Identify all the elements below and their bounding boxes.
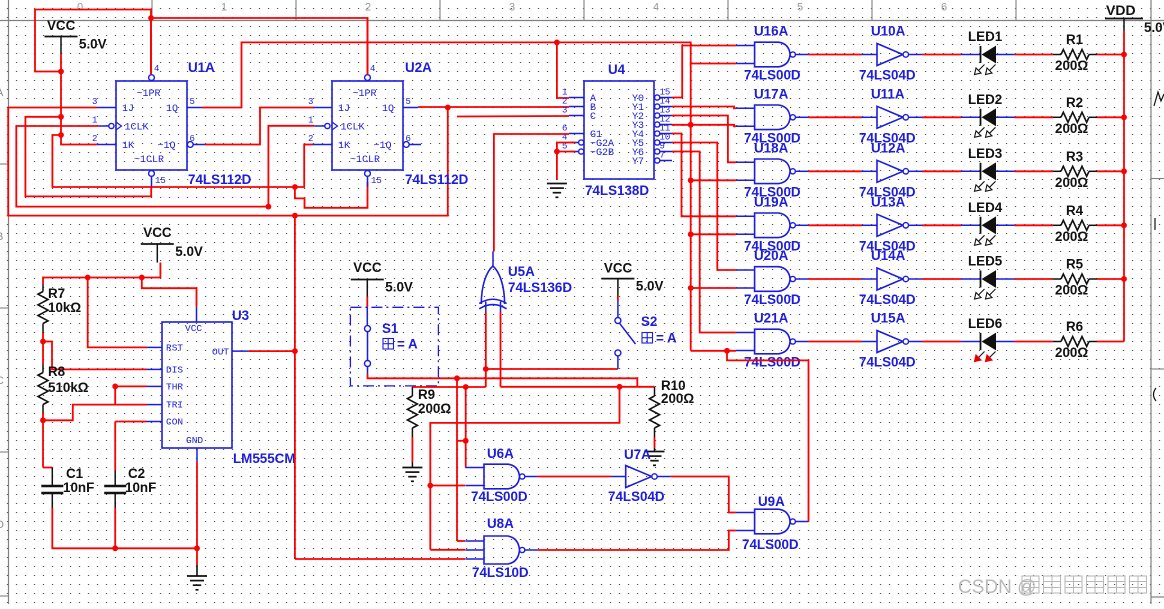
wire C input from below (457, 115, 569, 118)
wire to U6A bottom input (430, 485, 465, 487)
wire U6A output to U7A (538, 476, 611, 478)
sheet left border line (8, 0, 10, 604)
svg-text:U6A: U6A (487, 446, 514, 461)
svg-text:~1PR: ~1PR (353, 89, 377, 100)
svg-text:5: 5 (797, 2, 803, 14)
svg-text:15: 15 (155, 176, 166, 186)
svg-text:VCC: VCC (353, 260, 382, 275)
svg-text:U19A: U19A (754, 194, 789, 209)
svg-text:~1CLR: ~1CLR (350, 155, 380, 166)
svg-text:1CLK: 1CLK (341, 123, 365, 134)
svg-text:RST: RST (166, 343, 183, 354)
wire U13A output to LED4 (922, 224, 961, 226)
LED LED2 (961, 116, 981, 118)
wire LED4 to R4 (1015, 224, 1054, 226)
wire U6A top input branch (465, 387, 467, 468)
svg-text:1Q: 1Q (166, 104, 178, 115)
resistor R1 200&#937; (1053, 54, 1061, 56)
wire U9A output feedback to U21A (807, 521, 809, 523)
wire Y6 to U21A top input (672, 152, 736, 333)
NAND gate U17A 74LS00D (755, 105, 791, 130)
svg-text:U9A: U9A (758, 494, 785, 509)
capacitor C1 10nF (42, 420, 44, 467)
wire U15A output to LED6 (922, 341, 961, 343)
svg-text:1K: 1K (338, 141, 350, 152)
svg-text:6: 6 (190, 134, 195, 144)
svg-text:R2: R2 (1066, 95, 1083, 110)
wire riser to U2A clock (268, 126, 314, 207)
wire Y0 to U16A top input (672, 46, 736, 98)
svg-text:R3: R3 (1066, 149, 1083, 164)
wire U5A left input (485, 312, 487, 387)
svg-text:LED4: LED4 (968, 200, 1003, 215)
svg-text:~1PR: ~1PR (137, 89, 161, 100)
wire U17A output to U11A (808, 116, 862, 118)
svg-text:0: 0 (77, 2, 83, 14)
wire U1A clock net (16, 126, 268, 207)
wire drop to bottom distribution (430, 387, 619, 550)
svg-text:4: 4 (653, 2, 659, 14)
switch S1 key=A (dashed enclosure) (350, 307, 438, 386)
S1 top pin wire (366, 297, 368, 307)
svg-text:R1: R1 (1066, 32, 1084, 47)
junction dot C2 bus (112, 545, 118, 551)
svg-text:C1: C1 (66, 466, 84, 481)
XOR gate U5A 74LS136D (481, 266, 504, 304)
svg-text:74LS136D: 74LS136D (508, 280, 572, 295)
label S1 key = A (383, 339, 394, 350)
wire to U20A bottom input (691, 287, 736, 289)
wire U3 GND to ground (196, 462, 198, 548)
svg-text:Y7: Y7 (632, 157, 644, 168)
svg-text:200Ω: 200Ω (1055, 175, 1088, 190)
svg-text:74LS112D: 74LS112D (405, 172, 469, 187)
resistor R9 200&#937; (411, 387, 413, 396)
ground under U4 (547, 184, 567, 198)
junction dot A to pin A (554, 40, 560, 46)
wire R6 to VDD rail (1097, 341, 1124, 343)
svg-text:2: 2 (92, 134, 97, 144)
junction dot Y3 column (688, 122, 694, 128)
wire to U3 DIS (43, 342, 147, 370)
inverter U12A 74LS04D (877, 160, 903, 182)
wire U21A output to U15A (808, 341, 862, 343)
wire LED1 to R1 (1015, 54, 1054, 56)
svg-text:LM555CM: LM555CM (233, 451, 296, 466)
junction dot RST branch (85, 275, 91, 281)
svg-text:1Q: 1Q (382, 104, 394, 115)
svg-text:74LS00D: 74LS00D (742, 537, 799, 552)
wire R9 to ground (411, 437, 413, 462)
wire to U3 TRI (115, 404, 146, 406)
svg-text:VCC: VCC (185, 323, 202, 334)
resistor R2 200&#937; (1053, 116, 1061, 118)
flip-flop U1A 74LS112D (116, 81, 187, 170)
svg-text:VCC: VCC (143, 225, 172, 240)
svg-text:5.0V: 5.0V (79, 37, 107, 52)
svg-text:74LS138D: 74LS138D (585, 183, 649, 198)
svg-text:7: 7 (660, 151, 665, 161)
wire S2 line (486, 368, 618, 370)
wire R5 to VDD rail (1097, 278, 1124, 280)
wire S1 bottom to net (368, 374, 638, 387)
svg-text:10kΩ: 10kΩ (48, 300, 81, 315)
wire C2 to ground bus (114, 508, 116, 548)
svg-text:200Ω: 200Ω (418, 401, 451, 416)
wire VCC2 distribution line (43, 263, 160, 285)
wire Y2 to U18A top input (672, 116, 736, 163)
svg-text:74LS112D: 74LS112D (188, 172, 252, 187)
wire U1A preset from rail (150, 18, 152, 74)
3-input NAND gate U8A 74LS10D (484, 536, 520, 564)
U4 ~G2A pin (579, 140, 584, 145)
wire R9 to U5A left input net (412, 386, 485, 388)
svg-text:B: B (0, 231, 3, 243)
junction dot U6A bottom branch (427, 483, 433, 489)
svg-text:1J: 1J (122, 104, 134, 115)
svg-text:U1A: U1A (188, 60, 215, 75)
svg-text:~1Q: ~1Q (158, 141, 176, 152)
junction dot U6A/US8 cross link (463, 438, 469, 444)
junction dot U20A branch (688, 285, 694, 291)
decoder U4 74LS138D (584, 81, 654, 179)
svg-text:1: 1 (92, 116, 97, 126)
wire VCC1 to top rail (35, 10, 151, 75)
junction dot VDD rail row 1 (1121, 52, 1127, 58)
wire U5A right input (500, 312, 502, 387)
NAND gate U20A 74LS00D (755, 267, 791, 292)
svg-text:5.0V: 5.0V (1144, 20, 1164, 35)
svg-text:DIS: DIS (166, 365, 183, 376)
junction dot VDD rail row 4 (1121, 222, 1127, 228)
svg-text:R5: R5 (1066, 257, 1084, 272)
svg-text:U20A: U20A (754, 248, 789, 263)
svg-text:74LS00D: 74LS00D (744, 68, 801, 83)
wire U2A 1Q to U4 pin B (418, 106, 569, 108)
NAND gate U6A 74LS00D (484, 464, 520, 489)
wire U5A right input net to R10 (501, 386, 655, 388)
inverter U7A 74LS04D (626, 466, 652, 488)
wire VCC1 down feed (60, 72, 62, 136)
wire VCC to U1A 1K (61, 135, 97, 145)
svg-text:U16A: U16A (754, 24, 789, 39)
sheet top ruler line (0, 20, 1164, 22)
svg-text:4: 4 (154, 64, 159, 74)
wire Y3 row to U17A bottom input (672, 125, 736, 127)
resistor R7 10k&#937; (42, 285, 44, 292)
svg-text:OUT: OUT (212, 347, 229, 358)
wire U20A output to U14A (808, 278, 862, 280)
wire Y1 to U17A top input (672, 107, 736, 109)
wire U1A 1Q to U4 pin A and U16A (202, 42, 736, 107)
wire LED2 to R2 (1015, 116, 1054, 118)
wire U10A output to LED1 (922, 54, 961, 56)
wire VCC1 stem (60, 54, 62, 72)
junction dot OUT node (292, 348, 298, 354)
inverter U11A 74LS04D (877, 106, 903, 128)
junction dot R8/C1 node (40, 417, 46, 423)
svg-text:TRI: TRI (166, 400, 183, 411)
svg-text:1CLK: 1CLK (125, 123, 149, 134)
svg-text:6: 6 (406, 134, 411, 144)
svg-text:510kΩ: 510kΩ (48, 380, 89, 395)
wire cross link (457, 440, 466, 442)
wire R10 to ground (654, 437, 656, 448)
svg-text:U3: U3 (232, 308, 249, 323)
svg-text:R7: R7 (48, 286, 65, 301)
junction dot THR node (112, 384, 118, 390)
switch S2 key=A (617, 295, 619, 301)
wire U12A output to LED3 (922, 170, 961, 172)
junction dot GND bus (194, 545, 200, 551)
ground below R10 (645, 452, 665, 466)
svg-text:15: 15 (371, 176, 382, 186)
junction dot VCC feed A (58, 114, 64, 120)
svg-text:~1CLR: ~1CLR (134, 155, 164, 166)
wire LED6 to R6 (1015, 341, 1054, 343)
junction dot OUT column at J line (292, 213, 298, 219)
wire VDD rail vertical (1123, 31, 1125, 342)
svg-text:~1Q: ~1Q (374, 141, 392, 152)
svg-text:74LS10D: 74LS10D (472, 565, 529, 580)
svg-text:3: 3 (562, 106, 567, 116)
svg-text:74LS04D: 74LS04D (859, 292, 916, 307)
resistor R10 200&#937; (654, 387, 656, 396)
wire U3 OUT (249, 350, 295, 352)
svg-text:LED1: LED1 (968, 29, 1003, 44)
svg-text:200Ω: 200Ω (1055, 121, 1088, 136)
wire LED5 to R5 (1015, 278, 1054, 280)
wire U19A output to U13A (808, 224, 862, 226)
svg-text:U17A: U17A (754, 86, 789, 101)
wire CON to C2 (114, 422, 116, 471)
ground below U3 (187, 576, 207, 590)
svg-text:CON: CON (166, 417, 183, 428)
resistor R4 200&#937; (1053, 224, 1061, 226)
svg-text:74LS04D: 74LS04D (859, 355, 916, 370)
junction dot line to U3 output column (292, 184, 298, 190)
svg-text:200Ω: 200Ω (1055, 58, 1088, 73)
inverter U10A 74LS04D (877, 44, 903, 66)
NAND gate U18A 74LS00D (755, 159, 791, 184)
wire to U21A bottom input (691, 350, 736, 352)
capacitor C2 10nF (114, 471, 116, 487)
svg-text:3: 3 (308, 97, 313, 107)
svg-text:U13A: U13A (871, 194, 906, 209)
wire to U3 THR (115, 385, 146, 387)
svg-text:74LS04D: 74LS04D (859, 68, 916, 83)
svg-text:200Ω: 200Ω (661, 391, 694, 406)
S1 bottom pin wire (367, 367, 369, 375)
svg-text:2: 2 (308, 134, 313, 144)
junction dot U21A/U9A branch (724, 348, 730, 354)
junction dot VDD rail row 2 (1121, 114, 1127, 120)
svg-text:200Ω: 200Ω (1055, 283, 1088, 298)
junction dot VCC1 (58, 69, 64, 75)
LED LED1 (961, 54, 981, 56)
resistor R6 200&#937; (1053, 341, 1061, 343)
LED LED4 (961, 224, 981, 226)
left ruler ticks (0, 163, 9, 165)
flip-flop U2A 74LS112D (332, 81, 403, 170)
wire C column to U8A top input (456, 378, 458, 541)
svg-text:U14A: U14A (871, 248, 906, 263)
wire to U8A middle input (430, 549, 465, 551)
svg-text:74LS00D: 74LS00D (744, 292, 801, 307)
svg-text:5: 5 (190, 97, 195, 107)
svg-text:= A: = A (656, 331, 677, 346)
junction dot R9 net / U6A branch (463, 384, 469, 390)
svg-text:U11A: U11A (871, 86, 905, 101)
svg-text:VCC: VCC (604, 261, 633, 276)
svg-text:2: 2 (365, 2, 371, 14)
junction dot VCC feed B (58, 132, 64, 138)
NAND gate U19A 74LS00D (755, 213, 791, 238)
label S2 key = A (642, 333, 653, 344)
inverter U15A 74LS04D (877, 331, 903, 353)
wire U8A output to U9A bottom input (538, 531, 736, 551)
wire U16A output to U10A (808, 54, 862, 56)
wire drop to U4 pin A (557, 42, 569, 98)
svg-text:= A: = A (397, 337, 418, 352)
top ruler ticks (151, 0, 153, 21)
junction dot B node (445, 105, 451, 111)
sheet bottom-right border corner (1151, 596, 1164, 598)
svg-text:5.0V: 5.0V (636, 279, 664, 294)
junction dot G2 net (554, 149, 560, 155)
svg-text:4: 4 (370, 64, 375, 74)
svg-text:U4: U4 (608, 62, 626, 77)
junction dot U18A branch (688, 177, 694, 183)
junction dot R7/R8 node (40, 339, 46, 345)
svg-text:74LS04D: 74LS04D (608, 489, 665, 504)
svg-text:U18A: U18A (754, 140, 789, 155)
S1 switch body (365, 326, 371, 332)
wire R2 to VDD rail (1097, 116, 1124, 118)
svg-text:U15A: U15A (871, 311, 906, 326)
svg-text:3: 3 (509, 2, 515, 14)
wire U7A output to U9A top input (671, 477, 736, 513)
wire R1 to VDD rail (1097, 54, 1124, 56)
svg-text:U8A: U8A (487, 516, 514, 531)
svg-text:R9: R9 (418, 387, 435, 402)
junction dot U19A branch (688, 231, 694, 237)
svg-text:C: C (590, 112, 596, 123)
svg-text:LED2: LED2 (968, 92, 1002, 107)
svg-text:VCC: VCC (47, 18, 76, 33)
wire Y4 to U19A top input (672, 134, 736, 217)
svg-text:THR: THR (166, 382, 183, 393)
cut-off marks beyond right border (1154, 92, 1164, 401)
timer U3 LM555CM (162, 322, 232, 448)
sheet right border line (1150, 0, 1152, 604)
junction dot U5A left input / S2 line (483, 366, 489, 372)
wire U2A 1Q to U1A 1J feedback (8, 108, 448, 216)
junction dot VDD rail row 5 (1121, 276, 1127, 282)
wire U18A output to U12A (808, 170, 862, 172)
wire to U3 VCC pin (142, 278, 197, 307)
wire U11A output to LED2 (922, 116, 961, 118)
wire G1 from U5A output (494, 134, 569, 251)
junction dot S1 net / C branch (454, 375, 460, 381)
svg-text:200Ω: 200Ω (1055, 229, 1088, 244)
svg-text:1: 1 (308, 116, 313, 126)
wire to U3 CON (115, 421, 146, 423)
wire LED3 to R3 (1015, 170, 1054, 172)
U4 G1 pin (569, 133, 584, 135)
resistor R8 510k&#937; (42, 342, 44, 365)
wire R4 to VDD rail (1097, 224, 1124, 226)
svg-text:U5A: U5A (508, 264, 535, 279)
svg-text:3: 3 (92, 97, 97, 107)
svg-text:VDD: VDD (1106, 2, 1136, 18)
inverter U14A 74LS04D (877, 268, 903, 290)
svg-text:U21A: U21A (754, 311, 789, 326)
svg-text:10nF: 10nF (63, 480, 94, 495)
svg-text:74LS00D: 74LS00D (471, 489, 528, 504)
svg-text:R4: R4 (1066, 203, 1084, 218)
NAND gate U9A 74LS00D (755, 509, 791, 534)
svg-text:1: 1 (221, 2, 227, 14)
wire U2A preset from rail (367, 18, 369, 74)
NAND gate U16A 74LS00D (755, 42, 791, 67)
svg-text:200Ω: 200Ω (1055, 345, 1088, 360)
NAND gate U21A 74LS00D (755, 329, 791, 354)
svg-text:S2: S2 (641, 314, 657, 329)
svg-text:R8: R8 (48, 364, 66, 379)
svg-text:1J: 1J (338, 104, 350, 115)
svg-text:6: 6 (941, 2, 947, 14)
junction dot clock net (266, 204, 272, 210)
U4 ~G2B pin (579, 149, 584, 154)
junction dot VDD rail row 3 (1121, 168, 1127, 174)
svg-text:5.0V: 5.0V (175, 244, 203, 259)
svg-text:5.0V: 5.0V (385, 280, 413, 295)
svg-text:S1: S1 (382, 321, 399, 336)
wire VCC to U1A CLR net (25, 117, 151, 197)
svg-text:R6: R6 (1066, 319, 1083, 334)
wire to U18A bottom input (691, 179, 736, 181)
svg-text:C2: C2 (128, 466, 145, 481)
junction dot R10 net drop (617, 384, 623, 390)
wire G2A G2B to ground (557, 143, 576, 181)
svg-text:GND: GND (186, 435, 203, 446)
wire U14A output to LED5 (922, 278, 961, 280)
wire VCC to U2A 1K (52, 135, 313, 187)
svg-text:5: 5 (406, 97, 411, 107)
LED LED3 (961, 170, 981, 172)
wire U1A clear stub to net (150, 186, 152, 188)
svg-text:U10A: U10A (871, 24, 906, 39)
svg-text:D: D (0, 519, 4, 531)
wire distribution vertical x=691 (690, 64, 692, 351)
svg-text:LED6: LED6 (968, 316, 1002, 331)
wire Y5 to U20A top input (672, 143, 736, 271)
resistor R5 200&#937; (1053, 278, 1061, 280)
wire U1A ~1Q to U2A 1J (205, 108, 314, 145)
LED LED6 (961, 341, 981, 343)
resistor R3 200&#937; (1053, 170, 1061, 172)
ground below R9 (402, 468, 422, 482)
wire R8 bottom (42, 413, 44, 420)
wire R7 bottom (42, 333, 44, 342)
LED LED5 (961, 278, 981, 280)
junction dot U3 VCC branch (139, 275, 145, 281)
wire to U3 RST (88, 278, 147, 348)
svg-text:C: C (0, 375, 4, 387)
inverter U13A 74LS04D (877, 214, 903, 236)
svg-text:1K: 1K (122, 141, 134, 152)
